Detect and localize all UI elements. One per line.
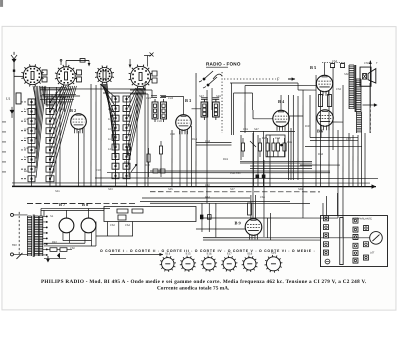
svg-text:S60: S60 xyxy=(344,73,349,76)
tube B5 xyxy=(316,75,332,95)
svg-text:R10: R10 xyxy=(145,164,150,167)
switch wiring fan middle xyxy=(100,84,144,165)
wire speaker feed xyxy=(363,60,378,133)
trimmer S16 xyxy=(201,252,217,272)
svg-text:B 5: B 5 xyxy=(310,65,317,70)
svg-text:C24: C24 xyxy=(168,97,173,100)
fuse resistors xyxy=(44,248,72,259)
svg-text:Corrente anodica totale 75 mA.: Corrente anodica totale 75 mA. xyxy=(157,285,230,291)
svg-text:10: 10 xyxy=(108,128,111,131)
resistor R mid1 xyxy=(127,140,130,177)
coil bank L1 xyxy=(21,99,35,182)
svg-text:R19: R19 xyxy=(223,158,228,161)
coil bank L2 xyxy=(46,99,54,182)
AVC/detector RC cluster xyxy=(240,132,295,158)
svg-text:C3: C3 xyxy=(53,96,57,99)
meter M xyxy=(370,232,383,245)
svg-text:C41: C41 xyxy=(243,128,248,131)
output transformer secondary xyxy=(356,79,361,112)
rotary switch S4 xyxy=(129,65,153,89)
svg-text:S33: S33 xyxy=(108,188,113,191)
tube B2 xyxy=(71,114,87,134)
svg-text:S15: S15 xyxy=(185,252,190,256)
tube B8 xyxy=(81,214,96,236)
svg-text:B 7: B 7 xyxy=(59,202,66,207)
svg-text:S47: S47 xyxy=(254,128,259,131)
svg-text:3.1: 3.1 xyxy=(24,128,28,131)
IF transformer T1 can B xyxy=(161,99,167,122)
loudspeaker xyxy=(360,67,376,86)
tone control box xyxy=(104,206,196,221)
tiny component labels xyxy=(12,60,378,250)
trimmer caps above T1 xyxy=(151,96,166,98)
dash line y192 xyxy=(150,191,320,193)
svg-text:9.1: 9.1 xyxy=(108,118,112,121)
output transformer core xyxy=(354,65,357,112)
tube B4 xyxy=(273,110,289,130)
svg-text:S47: S47 xyxy=(199,95,204,98)
output transformer primary xyxy=(349,65,354,109)
wire right side horizontals xyxy=(300,138,362,166)
IF transformer T1 can A xyxy=(152,99,158,122)
svg-text:C15: C15 xyxy=(96,169,101,172)
label RADIO-FONO xyxy=(206,62,241,68)
svg-text:C54: C54 xyxy=(332,60,337,63)
capacitor C50 xyxy=(262,175,266,179)
dash-dot alignment line xyxy=(27,202,135,204)
svg-text:R30: R30 xyxy=(305,125,310,128)
wire y161 pair xyxy=(240,161,312,163)
svg-text:S49: S49 xyxy=(216,95,221,98)
svg-text:ALTOPARLANTE: ALTOPARLANTE xyxy=(352,218,372,221)
svg-text:S18: S18 xyxy=(247,252,252,256)
wire mid horizontals xyxy=(130,90,152,186)
svg-text:S35: S35 xyxy=(168,188,173,191)
trimmer S19 xyxy=(265,251,283,273)
svg-text:RADIO - FONO: RADIO - FONO xyxy=(206,62,241,67)
label F flag xyxy=(277,77,295,82)
svg-text:S39: S39 xyxy=(298,188,303,191)
arrow down x130 xyxy=(129,59,132,68)
wire B3 pins xyxy=(180,126,192,186)
svg-text:R14: R14 xyxy=(192,138,197,141)
IF transformer T2 can B xyxy=(213,99,220,120)
mains transformer core xyxy=(33,214,34,257)
wire y83 run xyxy=(230,83,316,90)
svg-text:a F: a F xyxy=(370,251,374,255)
svg-text:Bo1: Bo1 xyxy=(24,170,29,173)
svg-text:1.1: 1.1 xyxy=(24,108,28,111)
wire bank rails xyxy=(31,82,145,186)
svg-text:C34: C34 xyxy=(205,140,210,143)
svg-text:S31: S31 xyxy=(55,190,60,193)
svg-text:C30: C30 xyxy=(170,133,175,136)
trimmer S17 xyxy=(221,252,237,272)
switch contact block S2 xyxy=(77,70,82,82)
switch contact block S1 xyxy=(42,70,47,82)
svg-text:C26: C26 xyxy=(157,120,162,123)
wire y142 pair xyxy=(196,142,232,145)
tube B9 xyxy=(245,219,262,240)
resistor R mid2 xyxy=(147,148,150,177)
svg-text:C7: C7 xyxy=(69,96,73,99)
tube B6 xyxy=(317,110,333,130)
svg-text:C55: C55 xyxy=(364,62,369,65)
wire B7B8 top xyxy=(41,208,110,216)
trimmer S18 xyxy=(242,252,258,272)
wire bank top rails xyxy=(40,89,146,96)
components above B5 xyxy=(322,63,345,76)
svg-text:R40: R40 xyxy=(12,244,17,247)
stub above S4 xyxy=(144,52,154,66)
svg-text:PHILIPS RADIO - Mod. BI 495: PHILIPS RADIO - Mod. BI 495 A - Onde med… xyxy=(41,279,367,285)
corte arrow xyxy=(110,253,163,256)
diode slant mid xyxy=(131,164,137,172)
switch radio-fono xyxy=(199,71,222,203)
wire long verticals xyxy=(172,67,365,237)
wire B3 grid xyxy=(161,96,201,114)
capacitor C49 xyxy=(255,175,259,179)
tone box drops xyxy=(96,221,133,236)
wire y178 xyxy=(95,177,378,180)
coupling stack B5-B6 xyxy=(319,95,332,107)
diode D1 xyxy=(10,107,15,118)
wire cluster verticals xyxy=(241,90,310,218)
wire y198 xyxy=(142,197,250,199)
mains plug xyxy=(10,212,27,259)
svg-text:8.1: 8.1 xyxy=(108,108,112,111)
svg-text:R8: R8 xyxy=(124,161,128,164)
wire y201-205 cluster xyxy=(140,201,310,203)
wire B4 top xyxy=(280,95,282,110)
wire y166 pair xyxy=(250,166,312,169)
svg-text:C40: C40 xyxy=(205,184,210,187)
trimmer S15 xyxy=(180,252,196,272)
ground bus xyxy=(12,183,376,189)
wire y240 xyxy=(203,239,320,241)
svg-text:B 4: B 4 xyxy=(278,99,285,104)
wire B4 grid plate xyxy=(253,110,303,119)
rotary switch S2 xyxy=(55,65,77,87)
wire y171 pair xyxy=(107,171,330,173)
rotary switch S1 xyxy=(21,64,43,86)
svg-text:R42: R42 xyxy=(52,241,57,244)
svg-text:C64: C64 xyxy=(125,224,130,227)
svg-text:C49 C50: C49 C50 xyxy=(230,172,241,175)
mains transformer winding 3 xyxy=(39,216,43,256)
small comps y170 xyxy=(153,169,165,173)
svg-text:C60: C60 xyxy=(70,247,75,250)
HT line to meter xyxy=(203,237,370,239)
transformer taps xyxy=(43,216,48,256)
svg-text:6.1: 6.1 xyxy=(24,156,28,159)
wire transformer drops xyxy=(349,133,362,186)
wire output cathodes xyxy=(44,221,96,246)
wire B5 B6 drops xyxy=(320,83,370,186)
svg-text:B 2: B 2 xyxy=(70,108,76,113)
antenna xyxy=(11,52,23,186)
wire S2 top link xyxy=(60,59,90,67)
svg-text:R22: R22 xyxy=(262,137,267,140)
svg-text:S16: S16 xyxy=(206,252,211,256)
svg-text:C45: C45 xyxy=(287,141,292,144)
svg-text:C52: C52 xyxy=(336,88,341,91)
svg-text:S37: S37 xyxy=(230,188,235,191)
switch contact block S4 xyxy=(152,71,157,83)
rectifier box xyxy=(196,203,271,240)
terminal board right contacts xyxy=(353,218,369,263)
switch wiring fan left xyxy=(33,86,76,178)
resistor U1 xyxy=(6,93,21,104)
trimmer S14 xyxy=(160,252,176,272)
svg-text:R34: R34 xyxy=(318,153,323,156)
dashed gang link horizontal xyxy=(224,78,276,80)
wire B2 pins xyxy=(78,127,84,186)
svg-text:C22: C22 xyxy=(146,97,151,100)
svg-text:12: 12 xyxy=(108,148,111,151)
resistor R mid3 xyxy=(159,141,162,177)
svg-text:5.1: 5.1 xyxy=(24,147,28,150)
wire y218 xyxy=(200,217,338,219)
svg-text:C5: C5 xyxy=(61,96,65,99)
svg-text:C62: C62 xyxy=(110,224,115,227)
svg-text:B 8: B 8 xyxy=(82,202,89,207)
choke above B9 xyxy=(247,195,255,219)
ground arrow bottom left xyxy=(46,256,50,263)
left margin row labels xyxy=(2,122,6,172)
wire B4 input box xyxy=(232,83,253,135)
svg-text:R44: R44 xyxy=(205,196,210,199)
svg-text:S19: S19 xyxy=(271,251,276,255)
tube B7 xyxy=(59,214,74,236)
coil bank L4 xyxy=(123,96,130,179)
mains transformer winding 2 xyxy=(34,216,38,256)
svg-text:4.1: 4.1 xyxy=(24,137,28,140)
svg-text:B 9: B 9 xyxy=(234,221,241,226)
svg-text:S17: S17 xyxy=(227,252,232,256)
terminal board feeds xyxy=(323,193,338,216)
svg-text:S14: S14 xyxy=(165,252,170,256)
dashed gang link vertical xyxy=(221,72,223,133)
trimmers above T2 xyxy=(201,98,219,100)
rotary switch S3 xyxy=(95,66,114,85)
svg-text:U1: U1 xyxy=(6,97,11,101)
svg-text:B 3: B 3 xyxy=(185,98,192,103)
svg-text:2.1: 2.1 xyxy=(24,118,28,121)
svg-text:C1: C1 xyxy=(45,96,49,99)
terminal board left contacts xyxy=(323,216,329,264)
terminal board outline xyxy=(320,216,387,267)
mains transformer winding 1 xyxy=(27,216,31,256)
svg-text:S1: S1 xyxy=(50,215,54,218)
IF transformer T2 can A xyxy=(201,99,208,120)
svg-text:7.1: 7.1 xyxy=(108,98,112,101)
svg-text:C66: C66 xyxy=(260,196,265,199)
choke winding xyxy=(357,112,362,133)
terminal board inner bar xyxy=(340,218,343,265)
wire y85 run xyxy=(245,86,316,134)
wire weave S1-S2 xyxy=(40,87,76,112)
tube B3 xyxy=(176,115,192,135)
svg-text:C44: C44 xyxy=(275,137,280,140)
coil bank L3 xyxy=(112,96,119,179)
